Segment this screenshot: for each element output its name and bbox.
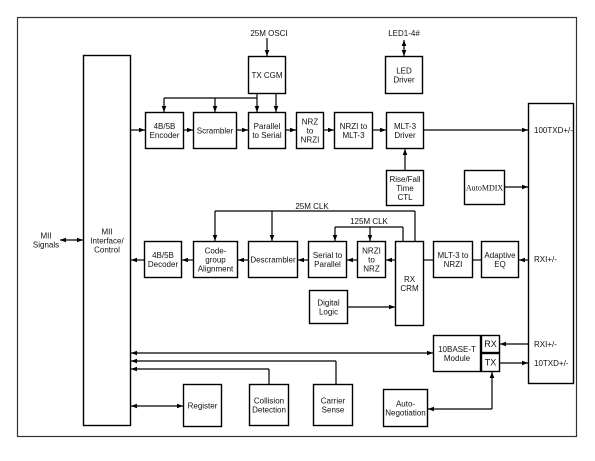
svg-text:AutoMDIX: AutoMDIX	[466, 183, 504, 192]
svg-text:Register: Register	[188, 401, 218, 410]
svg-text:Control: Control	[94, 245, 120, 254]
svg-text:Alignment: Alignment	[198, 264, 234, 273]
svg-text:4B/5B: 4B/5B	[152, 251, 174, 260]
svg-text:Scrambler: Scrambler	[197, 126, 234, 135]
svg-text:TX CGM: TX CGM	[251, 71, 282, 80]
svg-text:4B/5B: 4B/5B	[154, 122, 176, 131]
svg-text:NRZI: NRZI	[444, 260, 463, 269]
svg-text:to: to	[307, 126, 314, 135]
svg-text:10TXD+/-: 10TXD+/-	[534, 359, 569, 368]
svg-text:100TXD+/-: 100TXD+/-	[534, 126, 573, 135]
svg-text:Carrier: Carrier	[321, 396, 346, 405]
svg-text:10BASE-T: 10BASE-T	[438, 345, 476, 354]
svg-text:MII: MII	[40, 231, 51, 240]
svg-text:Descrambler: Descrambler	[250, 255, 296, 264]
svg-text:Interface/: Interface/	[90, 236, 124, 245]
svg-text:MII: MII	[101, 227, 112, 236]
svg-text:Driver: Driver	[393, 75, 415, 84]
svg-text:RX: RX	[404, 275, 416, 284]
svg-text:Signals: Signals	[33, 240, 59, 249]
svg-text:LED: LED	[396, 66, 412, 75]
svg-text:Module: Module	[444, 354, 471, 363]
svg-text:LED1-4#: LED1-4#	[388, 29, 420, 38]
svg-text:Parallel: Parallel	[254, 122, 281, 131]
svg-text:Negotiation: Negotiation	[385, 408, 425, 417]
svg-text:NRZI: NRZI	[301, 135, 320, 144]
svg-text:CTL: CTL	[397, 193, 413, 202]
svg-text:to Serial: to Serial	[252, 131, 282, 140]
svg-text:Driver: Driver	[394, 131, 416, 140]
svg-text:RX: RX	[484, 339, 497, 349]
svg-text:group: group	[205, 255, 226, 264]
svg-text:Adaptive: Adaptive	[484, 251, 516, 260]
svg-text:Collision: Collision	[254, 396, 284, 405]
svg-text:RXI+/-: RXI+/-	[534, 255, 557, 264]
svg-text:Digital: Digital	[317, 298, 339, 307]
svg-text:NRZ: NRZ	[363, 264, 380, 273]
svg-text:TX: TX	[485, 358, 497, 368]
svg-text:NRZI: NRZI	[362, 246, 381, 255]
svg-text:NRZI to: NRZI to	[340, 122, 368, 131]
svg-text:Decoder: Decoder	[148, 260, 179, 269]
svg-text:MLT-3 to: MLT-3 to	[438, 251, 470, 260]
svg-text:MLT-3: MLT-3	[394, 122, 417, 131]
svg-text:Time: Time	[396, 184, 414, 193]
svg-text:Sense: Sense	[322, 405, 345, 414]
svg-text:125M CLK: 125M CLK	[350, 217, 388, 226]
svg-text:Encoder: Encoder	[150, 131, 180, 140]
svg-text:to: to	[368, 255, 375, 264]
svg-text:25M CLK: 25M CLK	[295, 202, 329, 211]
svg-text:CRM: CRM	[400, 284, 419, 293]
svg-text:RXI+/-: RXI+/-	[534, 340, 557, 349]
svg-text:Auto-: Auto-	[396, 399, 415, 408]
svg-text:Serial to: Serial to	[313, 251, 343, 260]
svg-text:Detection: Detection	[252, 405, 286, 414]
svg-text:Logic: Logic	[319, 307, 338, 316]
svg-text:Rise/Fall: Rise/Fall	[389, 175, 420, 184]
svg-text:NRZ: NRZ	[302, 117, 319, 126]
svg-text:MLT-3: MLT-3	[342, 131, 365, 140]
svg-text:Code-: Code-	[205, 246, 227, 255]
svg-text:Parallel: Parallel	[314, 260, 341, 269]
svg-text:EQ: EQ	[494, 260, 506, 269]
svg-text:25M OSCI: 25M OSCI	[250, 29, 287, 38]
